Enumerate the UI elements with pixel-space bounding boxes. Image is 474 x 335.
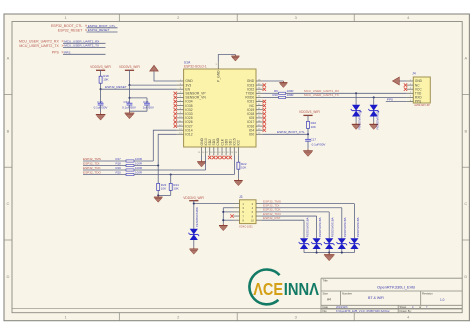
wire IO2 to R22 [237, 156, 239, 163]
port ESP32_BOOT_CTL with net label wire [51, 23, 118, 28]
svg-text:PESD5V0S1BA: PESD5V0S1BA [331, 217, 335, 237]
svg-text:1.0: 1.0 [440, 298, 445, 302]
net label ESP32_BOOT_CTL at IO0 [277, 130, 305, 134]
title block texts [323, 279, 445, 313]
svg-text:C35: C35 [143, 100, 149, 104]
svg-text:C: C [7, 201, 10, 206]
J3 pins numbered [234, 202, 263, 223]
svg-text:PESD5V0S1BA: PESD5V0S1BA [318, 217, 322, 237]
U1A right pins with names [245, 79, 263, 136]
IC U1A ESP32-SOLO-1 module body [184, 69, 256, 147]
wire J4 GND to arrow [399, 80, 407, 82]
connector J3 body [240, 200, 257, 224]
port ESP32_RESET with net label wire [58, 27, 118, 32]
svg-text:10K: 10K [161, 187, 166, 191]
svg-text:J4: J4 [412, 72, 416, 76]
svg-text:of: of [419, 305, 421, 309]
wire ESP32_RST from J3 to TVS [262, 216, 304, 238]
svg-text:Date: Date [323, 305, 329, 309]
resistor R23 10K [157, 183, 160, 190]
ACEINNA logo [249, 270, 319, 305]
svg-text:100R: 100R [135, 157, 142, 161]
nodes TVS bank [316, 252, 343, 254]
wire chip bottom GND [201, 156, 203, 161]
wire rail2 continue down [129, 85, 131, 98]
power bar VDD3V3_WIFI 2 [125, 69, 134, 71]
power arrow P_GND left at J4 [393, 77, 400, 85]
no-ERC crosses on U1A right pins [263, 83, 266, 131]
svg-text:2019/12/6: 2019/12/6 [336, 305, 348, 309]
svg-text:R19: R19 [115, 166, 121, 170]
power VDD3V3_WIFI label 1 [90, 65, 111, 69]
wire jtag net ESP32_TMS with resistor R17 [83, 130, 177, 162]
svg-text:A4: A4 [327, 298, 331, 302]
resistor R9 100R with net MCU_USER_UART2_RX [263, 89, 407, 94]
svg-text:10K: 10K [241, 166, 246, 170]
resistor R22 10K [237, 162, 247, 170]
port PPS with net label wire [52, 50, 106, 55]
svg-text:R17: R17 [115, 157, 121, 161]
svg-text:Revision: Revision [422, 292, 433, 296]
svg-text:Size: Size [323, 292, 329, 296]
wire TDI pull down [157, 166, 159, 184]
wire IO0 boot ctl [263, 133, 308, 135]
TVS diode D6 PESD5V0S1BA on uart line [368, 96, 379, 129]
svg-text:C16: C16 [97, 100, 103, 104]
svg-text:MCU_USER_UART2_TX: MCU_USER_UART2_TX [304, 93, 339, 97]
svg-text:J3: J3 [239, 195, 243, 199]
U1A left pins with names [177, 79, 207, 136]
svg-text:PESD5V0S1BA: PESD5V0S1BA [305, 217, 309, 237]
capacitor C35 [143, 100, 154, 109]
wire VDD to R16 [307, 115, 309, 121]
ground C17 [303, 149, 313, 157]
svg-text:PPS: PPS [52, 51, 60, 55]
wire jtag net ESP32_TCK with resistor R19 [83, 156, 206, 172]
svg-text:0.1uF/50V: 0.1uF/50V [312, 143, 326, 147]
svg-text:B: B [7, 128, 10, 133]
svg-text:C34: C34 [124, 100, 130, 104]
wire C17 to ground [307, 141, 309, 149]
title block grid [321, 278, 462, 313]
svg-text:B: B [464, 128, 467, 133]
wire pulls join [158, 190, 171, 195]
svg-text:100R: 100R [135, 170, 142, 174]
connector J4 body [413, 77, 430, 103]
svg-text:100R: 100R [287, 93, 294, 97]
svg-text:PESD5V0S1BA: PESD5V0S1BA [356, 217, 360, 237]
J4 part number [414, 103, 430, 107]
svg-text:ESP32_RST: ESP32_RST [263, 216, 281, 220]
ground caps [125, 111, 135, 119]
svg-text:ESP32-SOLO-1: ESP32-SOLO-1 [184, 64, 207, 68]
svg-text:MCU_USER_UART2_TX: MCU_USER_UART2_TX [64, 44, 99, 48]
svg-text:10K: 10K [103, 78, 108, 82]
svg-text:Title: Title [323, 279, 329, 283]
no-ERC crosses on U1A bottom pins [208, 156, 232, 159]
svg-text:A: A [7, 56, 10, 61]
svg-text:BT & WiFi: BT & WiFi [368, 296, 384, 300]
wire chip GND right [263, 80, 283, 82]
net label PPS at J4 [387, 98, 393, 102]
TVS diode bank D7-D11 PESD5V0S1BA [299, 217, 360, 252]
U1A top pin P_GND [216, 62, 221, 82]
wire R18 to EN row [100, 83, 102, 89]
ground C16 [96, 113, 106, 121]
svg-text:PPS: PPS [387, 98, 393, 102]
label R24 [173, 183, 179, 191]
wire VDD rail1 to R top [100, 70, 102, 76]
port MCU_USER_UART2_TX with net label wire [19, 43, 105, 48]
power VDD3V3_WIFI label 2 [119, 65, 140, 69]
svg-text:VDD3V3_WIFI: VDD3V3_WIFI [299, 110, 320, 114]
node pulls ground [157, 194, 159, 196]
ground TVS bank [324, 253, 335, 261]
resistor R18 10K [99, 74, 109, 83]
svg-text:ESP32_TCK: ESP32_TCK [83, 166, 101, 170]
svg-text:A: A [464, 56, 467, 61]
node R18-EN [100, 88, 102, 90]
svg-text:Drawn By:: Drawn By: [400, 309, 412, 313]
svg-text:PESD5V0S1BA: PESD5V0S1BA [375, 110, 379, 130]
svg-text:IO12: IO12 [185, 133, 192, 137]
svg-text:100R: 100R [135, 161, 142, 165]
svg-text:VDD3V3_WIFI: VDD3V3_WIFI [119, 65, 140, 69]
wire ESP32_TDI from J3 to TVS [262, 204, 342, 239]
wire TVS D4 to ground [193, 240, 195, 247]
power bar VDD3V3_WIFI 3 [303, 114, 312, 116]
svg-text:PESD5V0S1BA: PESD5V0S1BA [343, 217, 347, 237]
wire ESP32_TDO from J3 to TVS [262, 212, 317, 238]
wire EN to chip [101, 88, 177, 90]
svg-text:OpenRTK330LI_EVB: OpenRTK330LI_EVB [377, 285, 415, 290]
capacitor C34 [122, 100, 136, 109]
svg-text:INNΛ: INNΛ [284, 279, 319, 299]
J3 part number XG4C-1031 [239, 224, 253, 228]
svg-text:ESP32_TDI: ESP32_TDI [83, 162, 99, 166]
ground pulls [154, 195, 163, 202]
svg-text:VDD3V3_WIFI: VDD3V3_WIFI [183, 196, 204, 200]
svg-text:10K: 10K [311, 125, 316, 129]
svg-text:A2541WV-6P: A2541WV-6P [414, 103, 430, 107]
TVS diode D4 PESD5V0S1BA at J3 [189, 207, 200, 240]
svg-text:PPS: PPS [415, 100, 421, 104]
power bar VDD3V3_WIFI 4 [189, 200, 198, 202]
svg-text:PPS: PPS [64, 50, 70, 54]
svg-text:File: File [323, 309, 328, 313]
J4 pins with names [407, 79, 423, 104]
wire ESP32_TMS from J3 to TVS [262, 199, 354, 238]
wire ESP32_TCK from J3 to TVS [262, 208, 329, 239]
wire R16 to IO0 [307, 128, 309, 134]
J4 designator [412, 72, 416, 76]
svg-text:ESP32_RESET: ESP32_RESET [88, 28, 110, 32]
net label ESP32_RESET [105, 85, 127, 89]
wire J3 gnd bus [223, 208, 233, 224]
no-ERC cross J4 pin2 [404, 83, 407, 86]
svg-text:1uF/50V: 1uF/50V [143, 106, 154, 110]
label R23 [161, 183, 167, 191]
svg-text:K:\OpenRTK_EVB_V1.0\..\PCB8 WI: K:\OpenRTK_EVB_V1.0\..\PCB8 WIFI.SchDoc [336, 309, 390, 313]
ground chip bottom [197, 160, 206, 167]
capacitor C16 [94, 100, 108, 109]
power VDD3V3_WIFI label 3 [299, 110, 320, 114]
wire rail2 to chip row2 [130, 84, 177, 86]
svg-text:ESP32_BOOT_CTL: ESP32_BOOT_CTL [277, 130, 305, 134]
wire C16 to ground [100, 105, 102, 113]
wire TVS bank rail [304, 252, 354, 254]
svg-text:ESP32_TMS: ESP32_TMS [83, 157, 101, 161]
svg-text:Sheet: Sheet [400, 305, 407, 309]
J3 designator [239, 195, 243, 199]
ground P_GND [231, 55, 239, 62]
svg-text:PESD5V0S1BA: PESD5V0S1BA [195, 207, 199, 227]
node J3 bus pin5 [222, 211, 224, 213]
wire VDD rail2 down [129, 70, 131, 85]
node TDI pull [157, 164, 159, 166]
svg-text:C17: C17 [311, 138, 317, 142]
svg-text:R10: R10 [272, 93, 278, 97]
node VDD-J3 [193, 203, 195, 205]
capacitor C17 [305, 138, 325, 147]
svg-text:C: C [464, 201, 467, 206]
no-ERC cross J4 pin3 [404, 88, 407, 91]
wire jtag net ESP32_TDO with resistor R20 [83, 156, 234, 176]
svg-text:ESP32_RESET: ESP32_RESET [105, 85, 127, 89]
U1A value label ESP32-SOLO-1 [184, 64, 207, 68]
svg-text:XG4C-1031: XG4C-1031 [239, 224, 253, 228]
U1A designator [184, 60, 191, 64]
svg-text:IO0: IO0 [249, 133, 254, 137]
wire jtag net ESP32_TDI with resistor R18 [83, 134, 177, 166]
wire P_GND to ground [218, 55, 235, 62]
svg-text:R18: R18 [115, 161, 121, 165]
no-ERC cross J3 pin7 [230, 214, 233, 217]
node rail2 caps split [128, 97, 130, 99]
power arrow VDD3V3 at chip [150, 65, 159, 71]
svg-text:P_GND: P_GND [217, 70, 221, 82]
wire TDO pull down [170, 175, 172, 184]
svg-text:0.1uF/50V: 0.1uF/50V [122, 106, 136, 110]
wire caps bottoms join [130, 105, 148, 111]
svg-text:Number: Number [342, 292, 352, 296]
ground TVS D4 [189, 247, 198, 254]
resistor R16 10K [307, 121, 317, 129]
svg-text:ΛCE: ΛCE [253, 279, 283, 299]
port MCU_USER_UART2_RX with net label wire [19, 39, 106, 44]
svg-text:MCU_USER_UART2_TX: MCU_USER_UART2_TX [19, 44, 59, 48]
svg-text:D: D [7, 274, 10, 279]
svg-text:R20: R20 [115, 170, 121, 174]
node J3 bus pin9 [222, 219, 224, 221]
wire PPS to J4 [386, 101, 407, 103]
node IO0 pullup [307, 133, 309, 135]
wire VDD arrow to 3V3 pin row1 [154, 71, 177, 81]
ground chip right GND [279, 81, 287, 88]
svg-text:ESP32_TDO: ESP32_TDO [83, 171, 101, 175]
power VDD3V3_WIFI label 4 [183, 196, 204, 200]
svg-text:100R: 100R [135, 166, 142, 170]
resistor R10 100R with net MCU_USER_UART2_TX [263, 93, 407, 99]
svg-text:ESP32_RESET: ESP32_RESET [58, 28, 83, 32]
wire IO0 to C17 [307, 134, 309, 139]
svg-text:VDD3V3_WIFI: VDD3V3_WIFI [90, 65, 111, 69]
wire EN node down to C16 [100, 89, 102, 103]
svg-text:IO2: IO2 [237, 140, 241, 145]
ground J3 bus [219, 224, 228, 231]
no-ERC crosses on U1A left pins [174, 92, 177, 128]
svg-text:10K: 10K [173, 187, 178, 191]
svg-text:PESD5V0S1BA: PESD5V0S1BA [358, 110, 362, 130]
resistor R24 10K [169, 183, 172, 190]
node TDO pull [170, 173, 172, 175]
node rail2-3V3 [128, 84, 130, 86]
U1A bottom pins with names [198, 137, 241, 155]
svg-text:D: D [464, 274, 467, 279]
TVS diode D5 PESD5V0S1BA on uart line [351, 92, 362, 129]
wire caps split [130, 98, 148, 103]
wire R22 to ground [237, 169, 239, 179]
wire VDD to J3 pin1 [194, 201, 234, 204]
ground R22 [234, 179, 243, 186]
wire VDD node to TVS [193, 204, 195, 229]
power bar VDD3V3_WIFI 1 [96, 69, 105, 71]
